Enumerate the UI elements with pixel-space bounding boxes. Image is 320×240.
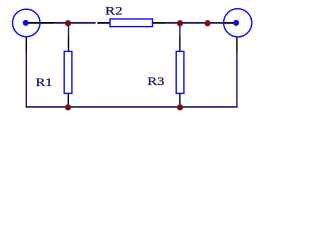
terminal source right: pin lead black [223,22,237,24]
wire right vertical rail [236,53,238,107]
svg-text:R1: R1 [36,75,53,89]
junction node top R1 [65,20,71,26]
resistor R1 lead bottom black [67,94,69,107]
resistor R3 label [147,74,164,88]
resistor R2 label [105,4,122,18]
resistor R2 body [110,19,153,27]
junction node bottom R3 [177,104,183,110]
wire bottom rail [26,106,238,108]
terminal source right: lower pin lead black [236,37,238,54]
terminal source right circle [224,9,252,37]
junction node top R3 [177,20,183,26]
resistor R2 lead left black [97,22,109,24]
resistor R1 body [64,51,72,93]
wire left vertical rail [25,53,27,108]
svg-text:R2: R2 [105,4,122,18]
resistor R2 lead right black [153,22,166,24]
wire top rail navy segment left [54,22,96,24]
wire R1 column top navy [68,23,70,37]
resistor R1 label [36,75,53,89]
terminal source left: lower pin lead black [25,37,27,53]
junction node wire-to-pin right [205,20,211,26]
resistor R3 lead top black [179,37,181,52]
resistor R1 lead top black [68,37,70,52]
wire top rail navy segment right [166,22,223,24]
resistor R3 lead bottom black [179,94,181,107]
terminal source left: pin lead black [26,22,54,24]
terminal source left circle [13,9,41,37]
resistor R3 body [176,51,184,93]
terminal source left center dot [23,20,29,26]
junction node bottom R1 [65,104,71,110]
wire R3 column top navy [179,23,181,37]
terminal source right center dot [233,20,239,26]
svg-text:R3: R3 [147,74,164,88]
